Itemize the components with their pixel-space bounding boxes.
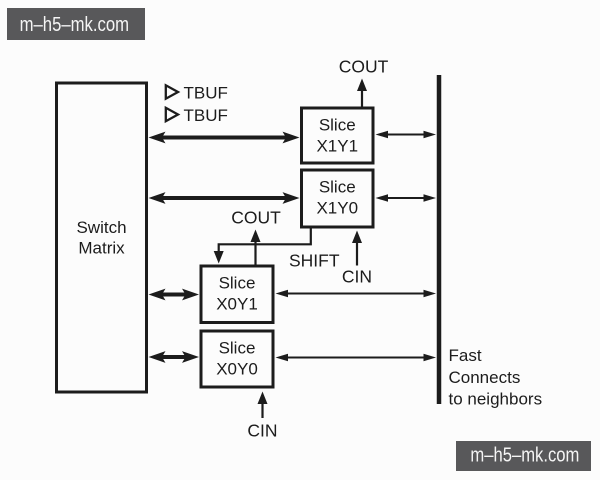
wire thick bidirectional Switch Matrix to Slice X1Y0	[149, 192, 300, 204]
block Slice X0Y1	[201, 266, 273, 323]
COUT output arrow of Slice X1Y1	[339, 57, 389, 107]
svg-text:X1Y0: X1Y0	[316, 199, 358, 218]
COUT output arrow of Slice X0Y1	[231, 208, 281, 265]
tbuf buffer 1	[166, 84, 228, 103]
svg-text:Matrix: Matrix	[78, 239, 125, 258]
block Slice X1Y1	[302, 108, 374, 163]
svg-text:Slice: Slice	[219, 339, 256, 358]
svg-text:m–h5–mk.com: m–h5–mk.com	[470, 445, 579, 467]
tbuf buffer 2	[166, 106, 228, 125]
svg-text:TBUF: TBUF	[184, 106, 228, 125]
svg-text:CIN: CIN	[247, 421, 277, 441]
svg-text:TBUF: TBUF	[184, 84, 228, 103]
block Slice X1Y0	[302, 170, 374, 227]
block Switch Matrix	[57, 83, 147, 392]
svg-text:Slice: Slice	[219, 274, 256, 293]
watermark bottom-right	[456, 441, 591, 471]
wire thin bidirectional Slice X1Y0 to bus	[376, 194, 437, 202]
svg-text:to neighbors: to neighbors	[449, 390, 543, 409]
svg-text:X1Y1: X1Y1	[316, 137, 358, 156]
SHIFT wire Slice X1Y0 to Slice X0Y1	[214, 229, 340, 271]
svg-text:COUT: COUT	[231, 208, 281, 228]
label Fast Connects to neighbors	[449, 346, 543, 409]
svg-text:Slice: Slice	[319, 178, 356, 197]
wire thin bidirectional Slice X0Y0 to bus	[276, 354, 437, 362]
svg-text:SHIFT: SHIFT	[289, 251, 340, 271]
wire thick bidirectional Switch Matrix to Slice X0Y0	[149, 351, 200, 363]
block Slice X0Y0	[201, 331, 273, 387]
wire thin bidirectional Slice X1Y1 to bus	[376, 131, 437, 139]
watermark top-left	[7, 8, 145, 40]
svg-text:COUT: COUT	[339, 57, 389, 77]
svg-text:Connects: Connects	[449, 368, 521, 387]
CIN input arrow of Slice X0Y0	[247, 392, 277, 441]
svg-text:X0Y1: X0Y1	[216, 295, 258, 314]
svg-text:CIN: CIN	[342, 267, 372, 287]
svg-text:m–h5–mk.com: m–h5–mk.com	[20, 14, 130, 36]
svg-text:Fast: Fast	[449, 346, 482, 365]
svg-text:Slice: Slice	[319, 116, 356, 135]
svg-text:Switch: Switch	[76, 218, 126, 237]
wire thin bidirectional Slice X0Y1 to bus	[276, 290, 437, 298]
wire thick bidirectional Switch Matrix to Slice X1Y1	[149, 132, 300, 144]
CIN input arrow of Slice X1Y0	[342, 231, 372, 287]
svg-text:X0Y0: X0Y0	[216, 360, 258, 379]
wire thick bidirectional Switch Matrix to Slice X0Y1	[149, 289, 200, 301]
fast-connects bus bar	[437, 75, 442, 404]
